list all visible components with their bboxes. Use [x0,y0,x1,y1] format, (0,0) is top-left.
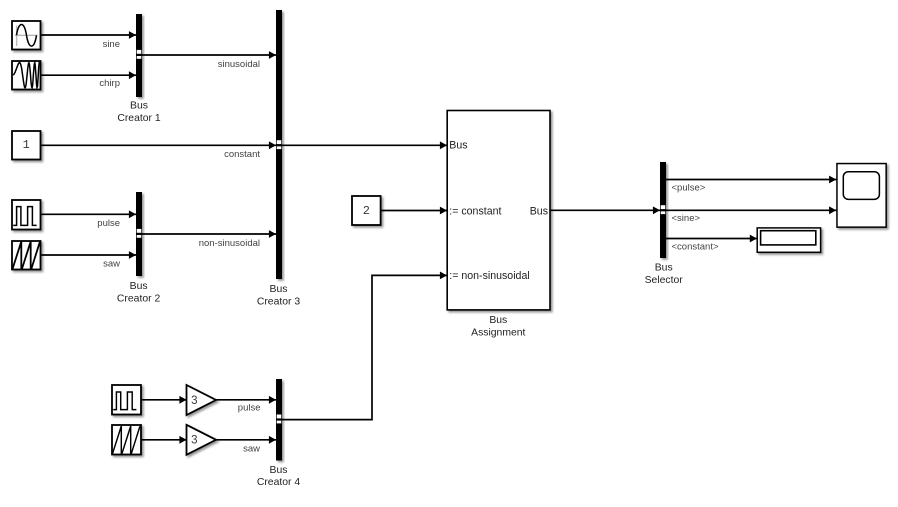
svg-text:<pulse>: <pulse> [672,183,706,194]
svg-text:saw: saw [243,443,260,454]
svg-text:Assignment: Assignment [471,327,525,338]
svg-text:3: 3 [191,435,197,447]
svg-text:Bus: Bus [270,465,288,476]
svg-text:<sine>: <sine> [672,213,701,224]
svg-text:Bus: Bus [130,101,148,112]
svg-text:Bus: Bus [530,205,548,217]
svg-text:3: 3 [191,395,197,407]
svg-text:Bus: Bus [270,284,288,295]
svg-text::= non-sinusoidal: := non-sinusoidal [449,270,529,282]
svg-text:1: 1 [23,138,30,152]
svg-text:Creator 1: Creator 1 [117,113,161,124]
svg-text:2: 2 [363,204,370,218]
svg-text:pulse: pulse [238,403,261,414]
svg-text:Bus: Bus [130,281,148,292]
svg-text:non-sinusoidal: non-sinusoidal [199,238,260,249]
svg-text::= constant: := constant [449,205,501,217]
svg-text:pulse: pulse [97,218,120,229]
svg-text:constant: constant [224,149,260,160]
svg-text:sine: sine [103,39,120,50]
svg-text:chirp: chirp [99,78,120,89]
svg-text:Bus: Bus [655,263,673,274]
svg-text:Creator 3: Creator 3 [257,296,301,307]
svg-text:sinusoidal: sinusoidal [218,59,260,70]
svg-text:Selector: Selector [645,275,684,286]
svg-text:saw: saw [103,259,120,270]
svg-text:Creator 4: Creator 4 [257,477,301,488]
svg-text:Bus: Bus [489,315,507,326]
svg-text:Bus: Bus [449,140,467,152]
svg-text:<constant>: <constant> [672,241,719,252]
svg-text:Creator 2: Creator 2 [117,294,161,305]
